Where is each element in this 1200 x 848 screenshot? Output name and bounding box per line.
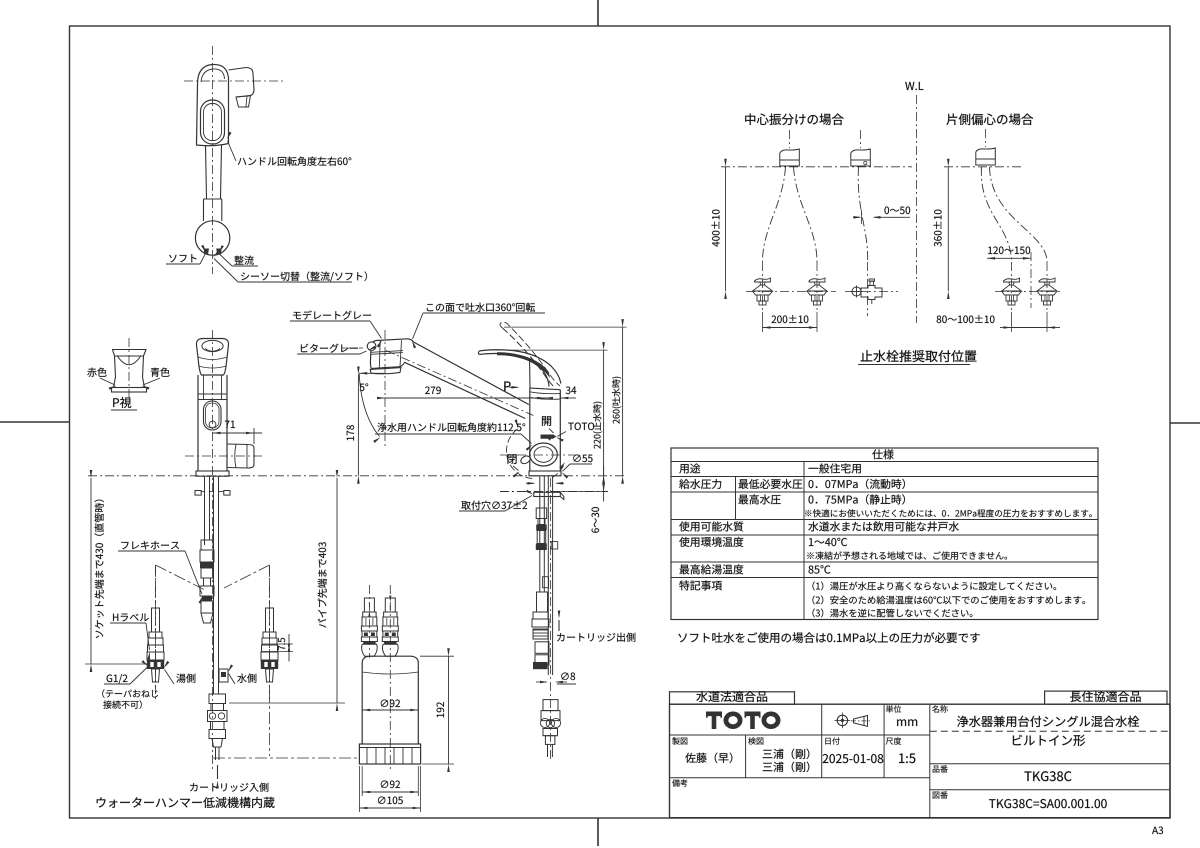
leader dia55	[570, 463, 592, 465]
P direction arrow	[510, 386, 518, 388]
leader G1/2	[104, 683, 130, 685]
hose middle single	[858, 167, 867, 262]
dim 400	[725, 167, 727, 291]
base symbol 1	[780, 149, 800, 166]
counter underside	[500, 491, 608, 493]
leader H label	[110, 622, 146, 624]
head aerator band	[371, 367, 400, 369]
base symbol 3	[976, 148, 996, 165]
leader 360 rotate plane	[423, 312, 545, 314]
dim 34	[534, 397, 545, 399]
P-view cup outline	[113, 350, 147, 388]
front view knob	[196, 339, 228, 376]
leader handle 112.5	[375, 433, 521, 435]
dim 192	[420, 655, 454, 657]
front pipes	[204, 476, 206, 545]
counter level line	[88, 475, 625, 477]
hoses left diagram	[763, 167, 786, 262]
dim dia105	[358, 766, 360, 812]
spray head right outlet block	[229, 68, 255, 98]
leader: seiryu	[232, 265, 258, 267]
P-view base plate	[112, 388, 147, 393]
leader bitter gray	[297, 353, 360, 355]
side body	[530, 388, 561, 471]
side pipe upper fittings	[536, 508, 547, 519]
dim 80~100	[1011, 312, 1013, 332]
leader red	[100, 378, 115, 385]
title block frame	[670, 704, 1171, 818]
right diagram counter line	[944, 166, 1022, 168]
front view centerline	[212, 330, 214, 772]
cold side connector	[269, 566, 271, 700]
flow arrow out (right nipple)	[389, 606, 391, 611]
first angle projection symbol	[837, 715, 847, 725]
spray head body outline	[197, 64, 229, 145]
side view head outline	[370, 341, 376, 369]
cartridge inlet nipples	[364, 598, 374, 612]
front side outlet	[227, 444, 254, 468]
lower fitting right assembly	[543, 700, 558, 711]
W.L line	[916, 95, 918, 323]
spray ball head	[195, 221, 229, 255]
dim 260	[622, 327, 624, 476]
spray head grip slot	[201, 100, 225, 144]
spray head: vertical centerline	[212, 46, 214, 274]
side pipe fittings	[537, 592, 548, 612]
front body slot	[204, 401, 222, 430]
close arrow	[513, 466, 519, 471]
P-view underline	[111, 409, 137, 411]
mounting tabs	[195, 491, 201, 496]
TOTO mark on body	[541, 435, 557, 439]
leader flex hose	[118, 550, 185, 552]
dim 360	[947, 167, 949, 291]
side pipes below counter	[539, 476, 541, 592]
side view head centerline	[384, 330, 386, 446]
check valve stack on hose	[201, 540, 213, 550]
front base flange	[196, 471, 229, 476]
text annotations	[87, 82, 1163, 834]
dim 7.5	[262, 643, 293, 645]
dim 430 socket	[90, 478, 92, 664]
side stop valve	[852, 287, 861, 296]
tighten arrows	[526, 482, 534, 484]
cartridge tank	[362, 656, 418, 744]
hot side connector	[155, 566, 157, 700]
outlet centerline	[185, 455, 262, 457]
spout arm centerline	[386, 351, 534, 416]
dim 220	[603, 350, 605, 476]
flow arrow in (left nipple)	[368, 602, 370, 607]
base symbol 2	[851, 149, 871, 166]
clip on pipe	[219, 669, 228, 682]
dim 403 pipe	[336, 478, 338, 703]
leader: seesaw switch	[238, 281, 352, 283]
phantom hose swing range	[155, 565, 157, 690]
lever phantom raised	[503, 328, 556, 388]
leader hot	[165, 670, 175, 685]
spray head: horizontal centerline	[184, 80, 285, 82]
rotation arc 112.5deg	[506, 429, 535, 479]
cartridge centerlines	[389, 585, 391, 772]
cert box left	[670, 692, 795, 704]
cartridge inlet arrow	[217, 765, 219, 779]
ext lines 220/260	[489, 349, 608, 351]
dim 6~30	[560, 491, 607, 493]
leader mounting hole	[459, 510, 505, 512]
lower connector stack	[209, 694, 226, 704]
wand collar	[203, 199, 205, 221]
clip on right tube	[551, 542, 558, 550]
side view head ball knob	[367, 342, 376, 351]
leader cold	[229, 674, 236, 685]
leader: handle rotation 60deg	[228, 141, 237, 161]
dim dia92 bottom	[361, 766, 363, 796]
dim dia8	[536, 681, 547, 683]
leader TOTO	[558, 432, 567, 437]
side view head aerator centerline	[342, 347, 363, 349]
hoses right diagram	[981, 167, 1011, 262]
lever base front edge	[529, 362, 531, 389]
stop valve title underline	[858, 364, 970, 366]
soft nozzle mark	[204, 249, 210, 255]
body horizontal centerline	[500, 454, 575, 456]
dim 178	[357, 375, 359, 476]
front view body	[197, 375, 199, 471]
purifier knob	[530, 443, 558, 466]
mounting washer	[534, 492, 561, 496]
side base flange	[529, 471, 561, 476]
TOTO logo	[706, 712, 722, 730]
dim 279	[385, 397, 545, 399]
lever handle solid	[479, 350, 561, 384]
cartridge collar	[359, 744, 420, 764]
dim 200	[762, 312, 764, 332]
spec table frame	[671, 448, 1098, 620]
leader blue	[143, 378, 160, 385]
5 deg wedge	[359, 372, 385, 374]
page center trim marks	[597, 0, 599, 26]
dim 0~50	[853, 216, 860, 218]
left diagram counter line	[721, 166, 912, 168]
P-view centerline	[128, 338, 130, 400]
cert box right	[1045, 691, 1167, 704]
dim 71	[213, 432, 263, 434]
valve center crosslines	[746, 291, 836, 293]
leader: soft	[166, 263, 200, 265]
open arrow	[549, 429, 554, 434]
spray wand	[206, 146, 207, 200]
stop valves	[755, 278, 771, 282]
dim dia92 top	[362, 709, 418, 711]
cartridge outlet arrow	[558, 620, 560, 631]
leader moderate gray	[290, 320, 370, 322]
dim 120~150	[987, 257, 1031, 259]
spout arm	[414, 342, 529, 405]
aerated nozzle mark	[216, 249, 222, 255]
